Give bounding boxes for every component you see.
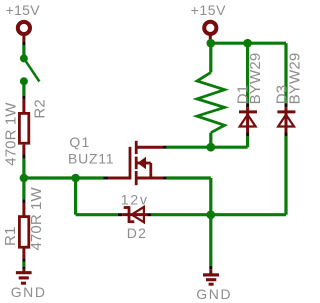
ground left bar 3 xyxy=(21,282,26,285)
svg-text:D2: D2 xyxy=(127,225,147,241)
ground right bar 3 xyxy=(209,283,214,286)
overlap D2 anode pin / net xyxy=(147,213,151,216)
node A junction (gate net) xyxy=(20,174,29,183)
overlap D3 anode pin / net xyxy=(285,133,288,137)
wire R2 to node A xyxy=(22,159,25,178)
transistor Q1 channel segment middle xyxy=(135,157,138,170)
wire D2 anode to node F xyxy=(151,213,286,216)
overlap pin/net under R2 xyxy=(22,154,25,158)
ground right bar 1 xyxy=(203,273,219,276)
node F junction (lower net) xyxy=(206,210,215,219)
diode D1 triangle xyxy=(240,115,256,127)
svg-text:470R 1W: 470R 1W xyxy=(2,102,19,166)
wire source down to lower net xyxy=(209,178,212,215)
switch lever xyxy=(24,58,40,81)
resistor R2 body xyxy=(19,113,28,143)
overlap wire / right gnd pin xyxy=(209,266,212,269)
pin R2 bottom xyxy=(22,145,25,155)
wire node A down to R1 xyxy=(22,178,25,199)
transistor Q1 gate plate xyxy=(129,147,132,180)
ground right bar 2 xyxy=(206,278,216,281)
diode D1 pin line through symbol xyxy=(246,107,249,132)
node D junction below right supply xyxy=(207,39,216,48)
ground left bar 2 xyxy=(19,276,29,279)
transistor Q1 body-diode arrow xyxy=(137,157,146,169)
svg-text:BUZ11: BUZ11 xyxy=(68,150,114,166)
wire supply to switch xyxy=(22,45,25,58)
wire node A to node B xyxy=(24,176,76,179)
resistor R1 body xyxy=(19,217,28,248)
wire D1 anode down to drain net xyxy=(246,136,249,147)
diode D3 triangle xyxy=(278,115,294,127)
svg-text:470R 1W: 470R 1W xyxy=(28,187,45,251)
wire node F down to right GND xyxy=(209,215,212,266)
wire D3 anode down to lower net xyxy=(284,136,287,215)
pin R1 top xyxy=(22,203,25,216)
overlap wire/R1 top pin xyxy=(22,199,25,203)
zener D2 cathode bottom tab xyxy=(129,220,134,223)
pin of left supply xyxy=(22,34,25,41)
supply terminal circle left xyxy=(18,22,30,34)
svg-text:Q1: Q1 xyxy=(69,134,90,150)
zener D2 cathode top tab xyxy=(124,206,129,209)
wire top net corner down to D3 xyxy=(284,43,287,103)
wire node B down to D2 level xyxy=(74,178,77,215)
diode D1 cathode bar xyxy=(239,110,257,113)
transistor Q1 channel segment top xyxy=(135,141,138,154)
overlap wire/R2 top pin xyxy=(22,96,25,100)
node E junction above D1 xyxy=(243,39,252,48)
transistor Q1 gate pin xyxy=(108,177,130,180)
wire drain to node C xyxy=(167,146,248,149)
wire to D2 anode xyxy=(76,213,118,216)
gnd left pin stub xyxy=(22,270,25,273)
gnd right pin stub xyxy=(209,269,212,275)
overlap wire/gate pin xyxy=(104,177,109,180)
transistor Q1 source lead xyxy=(136,177,163,180)
supply terminal circle right xyxy=(204,22,216,34)
wire node B to Q1 gate xyxy=(76,176,104,179)
switch S contact top (node) xyxy=(20,54,28,62)
overlap D1 anode pin / net xyxy=(246,133,249,137)
zener D2 cathode bar xyxy=(128,206,131,223)
overlap drain pin / net xyxy=(163,146,167,149)
node C junction (drain net) xyxy=(206,143,215,152)
transistor Q1 bulk horizontal xyxy=(136,162,151,165)
resistor zigzag xyxy=(197,72,225,132)
diode D3 pin line through symbol xyxy=(285,107,288,132)
transistor Q1 drain lead xyxy=(136,146,163,149)
node B junction xyxy=(71,174,80,183)
transistor Q1 bulk vertical xyxy=(149,163,152,178)
svg-text:BYW29: BYW29 xyxy=(247,53,264,105)
wire source to right xyxy=(167,176,211,179)
svg-text:R1: R1 xyxy=(2,226,19,246)
wire top net to the right xyxy=(211,42,286,45)
svg-text:GND: GND xyxy=(196,286,232,302)
pin R2 top xyxy=(22,100,25,114)
wire node D down to resistor xyxy=(209,43,212,72)
pin R1 bottom xyxy=(22,248,25,258)
overlap wire / D2 cathode pin xyxy=(118,213,122,216)
overlap wire / gnd pin xyxy=(22,267,25,270)
svg-text:GND: GND xyxy=(11,284,47,300)
svg-text:BYW29: BYW29 xyxy=(286,53,303,105)
overlap wire / D3 cathode pin xyxy=(285,103,288,107)
zener D2 pin line through symbol xyxy=(122,213,147,216)
overlap source pin / net xyxy=(163,177,167,180)
diode D3 cathode bar xyxy=(277,110,295,113)
svg-text:+15V: +15V xyxy=(191,2,227,18)
svg-text:R2: R2 xyxy=(31,99,48,119)
wire zigzag bottom to node C xyxy=(209,133,212,148)
ground left bar 1 xyxy=(16,271,32,274)
switch S contact bottom (node) xyxy=(20,77,28,85)
overlap R1 pin / gnd wire xyxy=(22,258,25,262)
pin of right supply xyxy=(209,34,212,40)
svg-text:+15V: +15V xyxy=(6,2,41,18)
wire switch to R2 xyxy=(22,81,25,95)
zener D2 triangle xyxy=(132,207,144,222)
wire R1 to GND xyxy=(22,262,25,267)
transistor Q1 channel segment bottom xyxy=(135,171,138,185)
overlap wire / D1 cathode pin xyxy=(246,103,249,107)
wire node E down to D1 xyxy=(246,43,249,103)
wire overlap (pin+net) below left supply xyxy=(22,41,25,45)
